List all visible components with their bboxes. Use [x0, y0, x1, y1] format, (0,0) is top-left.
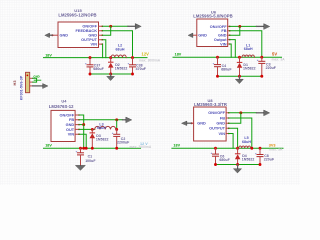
junction gnd C5 — [260, 75, 263, 78]
junction D3 rail — [91, 147, 94, 150]
BLOCK4 — [172, 98, 283, 173]
BLOCK1 — [44, 8, 161, 81]
svg-text:100uF: 100uF — [85, 159, 96, 163]
junction output node — [115, 128, 118, 131]
ground port arrow left — [49, 34, 53, 36]
wire ON/OFF to GND row — [102, 26, 110, 35]
port arrow right 5V enable — [257, 25, 265, 27]
svg-text:680uF: 680uF — [93, 67, 104, 71]
wire VIN down — [101, 44, 103, 58]
ground symbol — [110, 74, 112, 77]
svg-text:18V: 18V — [45, 144, 52, 148]
pin end nodes — [101, 26, 103, 44]
wire ON/OFF down to GND row — [79, 115, 84, 125]
pin 3 stub — [30, 85, 33, 87]
svg-text:U4: U4 — [61, 99, 67, 104]
junction C5 — [260, 56, 263, 59]
junction gnd C6 — [214, 163, 217, 166]
svg-text:GND: GND — [197, 122, 206, 126]
junction C1 — [79, 147, 82, 150]
capacitor C38 — [128, 58, 137, 74]
port arrow right 12V output — [123, 119, 127, 121]
svg-text:GND: GND — [218, 34, 227, 38]
svg-text:220uF: 220uF — [264, 157, 275, 161]
junction D2 — [109, 56, 112, 59]
capacitor C37 — [85, 58, 94, 74]
svg-text:1N5822: 1N5822 — [115, 67, 128, 71]
wire pin1 — [33, 78, 37, 82]
wire ground rail — [216, 164, 261, 166]
pin stubs right — [228, 26, 230, 44]
wire ground rail — [90, 73, 133, 75]
svg-text:C1: C1 — [88, 154, 93, 158]
svg-text:470uF: 470uF — [136, 67, 147, 71]
node at GND pin end — [51, 34, 53, 36]
wire input rail — [172, 147, 283, 149]
capacitor C2 — [112, 129, 121, 148]
svg-text:FB: FB — [220, 116, 225, 120]
svg-text:Output: Output — [214, 38, 227, 42]
svg-text:68uH: 68uH — [97, 126, 106, 130]
svg-text:GND: GND — [88, 34, 97, 38]
junction VIN rail — [85, 147, 88, 150]
diode D1 — [237, 57, 243, 76]
inductor L1 — [242, 55, 254, 57]
pin GND left stub — [191, 122, 193, 124]
svg-text:VIN: VIN — [68, 133, 75, 137]
svg-text:GND: GND — [216, 122, 225, 126]
svg-text:680uF: 680uF — [219, 158, 230, 162]
pin GND left stub — [191, 34, 197, 36]
svg-text:FB: FB — [69, 118, 74, 122]
svg-text:GND: GND — [198, 34, 207, 38]
junction FB rail — [250, 147, 253, 150]
regulator U4 body — [51, 110, 75, 141]
svg-text:VIN: VIN — [220, 42, 227, 46]
port arrow right 12V enable — [128, 25, 136, 27]
wire FEEDBACK down — [102, 31, 132, 58]
node pin1 marker — [27, 75, 29, 77]
svg-text:ON#/OFF: ON#/OFF — [210, 25, 227, 29]
svg-text:FEEDBACK: FEEDBACK — [76, 29, 98, 33]
svg-text:1N5822: 1N5822 — [243, 67, 256, 71]
svg-text:1N5822: 1N5822 — [96, 137, 109, 141]
wire input rail — [44, 57, 148, 59]
capacitor C5 — [257, 57, 266, 76]
regulator U15 body — [58, 22, 99, 48]
pin end nodes — [78, 115, 80, 134]
svg-text:+: + — [76, 150, 78, 154]
svg-text:2200uF: 2200uF — [117, 140, 130, 144]
svg-text:220uF: 220uF — [266, 66, 277, 70]
pin stubs right — [99, 26, 103, 44]
inductor L2 — [111, 55, 126, 58]
wire OUT to inductor — [79, 128, 95, 130]
svg-text:68uH: 68uH — [116, 47, 125, 51]
inductor L5 — [239, 146, 251, 148]
junction FB — [115, 118, 118, 121]
svg-text:1N5822: 1N5822 — [242, 157, 255, 161]
svg-text:+: + — [257, 58, 259, 62]
connector H3 body — [26, 72, 30, 92]
port arrow right 18V input — [33, 85, 44, 87]
junction C37 — [89, 56, 92, 59]
junction gnd C8 — [259, 163, 262, 166]
wire OUTPUT down — [102, 40, 106, 58]
capacitor C4 — [213, 57, 222, 76]
wire ON/OFF to GND row — [229, 113, 241, 123]
junction ON/OFF — [238, 25, 241, 28]
wire VIN down — [230, 44, 232, 57]
svg-text:ON/OFF: ON/OFF — [60, 113, 75, 117]
svg-text:+: + — [213, 62, 215, 66]
wire OUTPUT down — [229, 128, 238, 148]
pin stubs right — [226, 113, 229, 134]
svg-text:18V: 18V — [173, 144, 180, 148]
wire ON/OFF to GND row — [230, 26, 240, 35]
junction gnd C37 — [89, 73, 92, 76]
svg-text:680uF: 680uF — [221, 68, 232, 72]
regulator U6 body — [197, 19, 228, 47]
junction C4 — [216, 56, 219, 59]
wire VIN down — [79, 134, 86, 148]
wire ground rail — [218, 75, 262, 77]
pin 2 stub — [30, 81, 33, 83]
junction D3 — [91, 128, 94, 131]
svg-text:max: 3A: max: 3A — [269, 147, 283, 151]
junction ON/OFF — [109, 25, 112, 28]
wire ON/OFF to port — [102, 25, 128, 27]
junction C8 — [259, 147, 262, 150]
svg-text:H3: H3 — [12, 80, 17, 86]
wire VIN down — [229, 134, 234, 149]
node at GND pin end — [191, 122, 193, 124]
svg-text:LM2596S-12/NOPB: LM2596S-12/NOPB — [58, 13, 96, 18]
wire ON/OFF to port — [230, 25, 257, 27]
CONN — [12, 72, 48, 100]
svg-text:max: 3A: max: 3A — [272, 57, 286, 61]
wire input rail — [173, 56, 282, 58]
svg-text:ON#/OFF: ON#/OFF — [208, 111, 225, 115]
port arrow right 3V3 enable — [257, 112, 265, 114]
svg-text:FB: FB — [221, 29, 226, 33]
junction gnd D4 — [236, 163, 239, 166]
pin 1 stub — [30, 77, 33, 79]
svg-text:18V: 18V — [175, 52, 182, 56]
svg-text:max: 3000mA: max: 3000mA — [139, 58, 161, 62]
junction gnd D2 — [109, 73, 112, 76]
junction D4 — [236, 147, 239, 150]
wire input rail — [44, 147, 141, 149]
svg-text:68uH: 68uH — [242, 140, 251, 144]
wire FB down — [230, 31, 262, 57]
pin stubs right — [75, 115, 79, 134]
ground port arrow left — [187, 122, 192, 124]
junction gnd D1 — [238, 75, 241, 78]
svg-text:KF301-5V6-3P: KF301-5V6-3P — [20, 75, 24, 100]
ground symbol — [76, 165, 86, 170]
wire ON/OFF to port — [229, 112, 257, 114]
svg-text:+: + — [255, 151, 257, 155]
capacitor C1 — [76, 148, 85, 165]
pin end nodes — [229, 26, 231, 44]
junction GND rail — [82, 147, 85, 150]
junction gnd C38 — [131, 73, 134, 76]
ground symbol — [237, 165, 239, 169]
junction GND — [82, 123, 85, 126]
svg-text:+: + — [112, 131, 114, 135]
wire FB down to output node — [116, 120, 118, 130]
pin GND left stub — [52, 34, 58, 36]
inductor L3 — [95, 126, 116, 129]
junction gnd C4 — [216, 75, 219, 78]
svg-text:+: + — [128, 62, 130, 66]
wire FB to port — [79, 119, 123, 121]
junction C38 — [131, 56, 134, 59]
svg-text:18V: 18V — [45, 53, 52, 57]
diode D3 — [90, 129, 96, 148]
ground symbol — [239, 76, 241, 79]
diode D2 — [108, 58, 114, 74]
svg-text:LM2596S-3.3/TR: LM2596S-3.3/TR — [194, 102, 227, 107]
wire FB down — [229, 118, 252, 148]
BLOCK3 — [44, 99, 152, 171]
svg-text:5V: 5V — [272, 52, 277, 57]
svg-text:ON/OFF: ON/OFF — [82, 25, 97, 29]
svg-text:VIN: VIN — [91, 43, 98, 47]
svg-text:LM2676S-12: LM2676S-12 — [49, 104, 74, 109]
svg-text:VIN: VIN — [219, 132, 226, 136]
svg-text:OUTPUT: OUTPUT — [81, 38, 98, 42]
wire GND row — [79, 124, 84, 126]
svg-text:GND: GND — [60, 34, 69, 38]
junction D1 — [238, 56, 241, 59]
capacitor C6 — [211, 148, 220, 164]
wire GND down to rail — [83, 125, 85, 149]
capacitor C8 — [255, 148, 264, 164]
junction ON/OFF — [239, 111, 242, 114]
junction C6 — [214, 147, 217, 150]
svg-text:68uH: 68uH — [244, 47, 253, 51]
diode D4 — [235, 148, 241, 164]
svg-text:+: + — [85, 62, 87, 66]
BLOCK2 — [173, 9, 285, 83]
svg-text:LM2596S-5.0/NOPB: LM2596S-5.0/NOPB — [193, 14, 232, 19]
ground symbol small — [34, 79, 41, 81]
ground port arrow left — [188, 33, 193, 37]
wire Output down — [230, 40, 236, 58]
regulator U8 body — [194, 107, 227, 141]
svg-text:12V: 12V — [142, 52, 150, 57]
junction C2 rail — [115, 147, 118, 150]
svg-text:OUT: OUT — [66, 128, 75, 132]
svg-text:+: + — [211, 151, 213, 155]
node at GND pin end — [191, 34, 193, 36]
svg-text:OUTPUT: OUTPUT — [209, 127, 226, 131]
svg-text:GND: GND — [66, 123, 75, 127]
svg-text:max: 2000mA: max: 2000mA — [130, 145, 152, 149]
pin end nodes — [228, 113, 230, 134]
